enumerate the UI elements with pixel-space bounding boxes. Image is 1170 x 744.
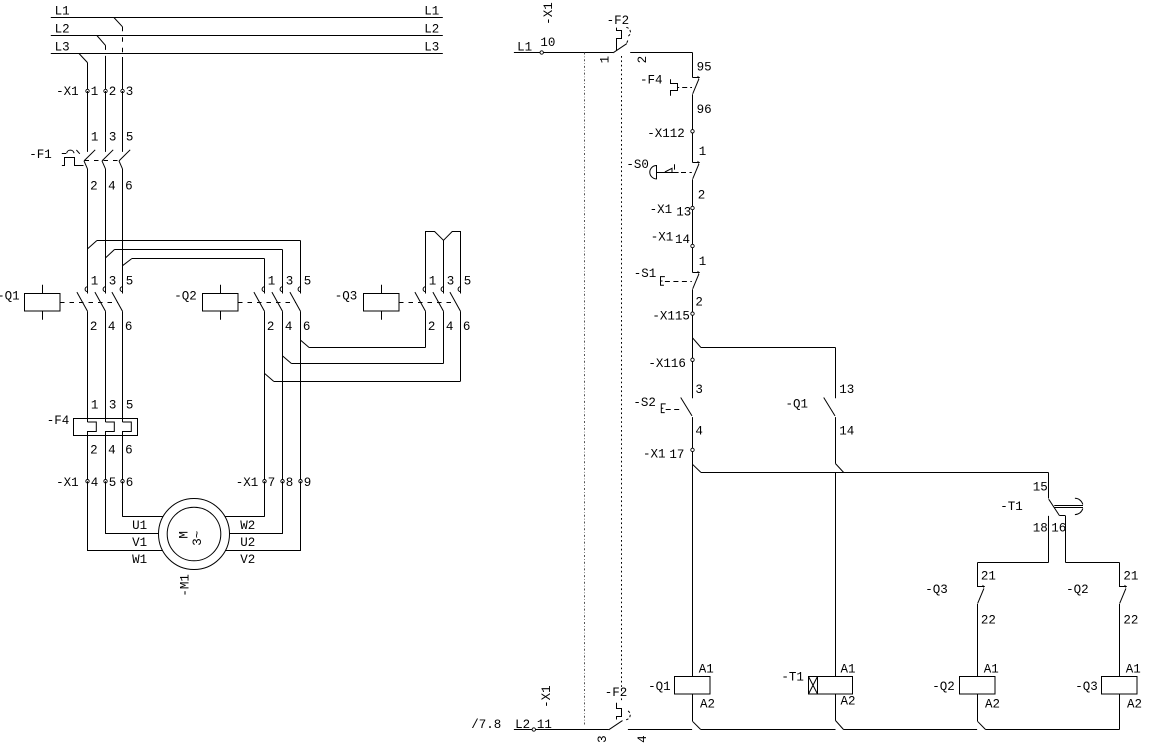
svg-text:-S1: -S1 — [634, 267, 657, 281]
wire -S2 to junction with terminal -X1 17 — [643, 417, 703, 472]
svg-text:4: 4 — [446, 320, 454, 334]
svg-text:6: 6 — [125, 320, 133, 334]
svg-text:4: 4 — [91, 476, 99, 490]
svg-text:-X1: -X1 — [236, 476, 259, 490]
svg-text:17: 17 — [669, 448, 684, 462]
svg-text:-X1: -X1 — [647, 127, 670, 141]
mechanical linkage dashed line of -F2 — [584, 53, 586, 725]
wires -F4 to -X1 terminals 4 5 6 — [88, 436, 123, 482]
svg-text:5: 5 — [126, 130, 134, 144]
supply rail to -Q2 pole 5 — [88, 241, 301, 294]
wire -Q2 aux to coil -Q3 — [1119, 604, 1121, 677]
auxiliary contact -Q2 21 22 — [1066, 570, 1138, 628]
svg-text:95: 95 — [697, 61, 712, 75]
svg-text:-S0: -S0 — [626, 158, 649, 172]
wire -Q3 aux to coil -Q2 — [977, 604, 979, 677]
svg-text:1: 1 — [91, 399, 99, 413]
wire junction down to coil -T1 — [835, 473, 837, 677]
svg-text:3~: 3~ — [191, 531, 205, 546]
svg-text:L2: L2 — [424, 22, 439, 36]
svg-text:1: 1 — [699, 145, 707, 159]
svg-text:4: 4 — [108, 180, 116, 194]
svg-text:-Q2: -Q2 — [932, 680, 955, 694]
svg-text:16: 16 — [1051, 522, 1066, 536]
svg-text:V1: V1 — [132, 536, 147, 550]
svg-text:L1: L1 — [55, 4, 70, 18]
svg-text:6: 6 — [125, 180, 133, 194]
svg-text:A1: A1 — [984, 663, 999, 677]
svg-text:1: 1 — [91, 275, 99, 289]
stop button -S1 — [634, 267, 700, 289]
svg-text:-Q1: -Q1 — [0, 289, 20, 303]
wire junction down to coil -Q1 — [692, 473, 694, 677]
svg-text:L1: L1 — [424, 4, 439, 18]
svg-text:3: 3 — [286, 275, 294, 289]
svg-text:1: 1 — [598, 56, 612, 64]
svg-text:-X1: -X1 — [540, 685, 554, 708]
svg-text:M: M — [178, 531, 192, 539]
timer contact -T1 15 16 18 — [1000, 473, 1083, 563]
svg-text:2: 2 — [695, 296, 703, 310]
svg-text:22: 22 — [1123, 614, 1138, 628]
contactor coil -Q1 — [648, 663, 715, 730]
svg-text:-F1: -F1 — [29, 148, 52, 162]
motor wires U1 V1 W1 — [88, 481, 163, 567]
svg-text:-Q3: -Q3 — [1075, 680, 1098, 694]
wires -Q1 to -F4 — [88, 311, 134, 422]
branch wire -Q2 pin 4 to -Q3 pin 4 — [283, 311, 444, 363]
svg-text:A2: A2 — [841, 695, 856, 709]
svg-text:5: 5 — [126, 399, 134, 413]
svg-text:-X1: -X1 — [56, 476, 79, 490]
svg-text:6: 6 — [125, 443, 133, 457]
svg-text:2: 2 — [267, 320, 275, 334]
motor -M1 — [159, 499, 230, 597]
svg-text:96: 96 — [697, 103, 712, 117]
svg-text:W2: W2 — [240, 519, 255, 533]
svg-text:2: 2 — [428, 320, 436, 334]
svg-text:12: 12 — [670, 127, 685, 141]
svg-text:10: 10 — [540, 36, 555, 50]
star point bridge above -Q3 — [426, 232, 461, 294]
svg-text:4: 4 — [108, 320, 116, 334]
svg-text:-Q3: -Q3 — [925, 583, 948, 597]
wire tap from L1 — [114, 18, 123, 92]
svg-text:2: 2 — [90, 180, 98, 194]
svg-text:-F4: -F4 — [640, 73, 663, 87]
contactor -Q1 — [0, 275, 133, 335]
svg-text:3: 3 — [596, 735, 610, 743]
wire -X1 to -F1 — [88, 91, 123, 152]
bottom rail L2 with terminal -X1 11 and reference /7.8 — [471, 685, 608, 732]
svg-text:L2: L2 — [55, 22, 70, 36]
svg-text:A1: A1 — [841, 663, 856, 677]
svg-text:2: 2 — [109, 85, 117, 99]
control supply wire L1 with terminal -X1 10 — [514, 2, 613, 54]
svg-text:-X116: -X116 — [648, 357, 686, 371]
svg-text:A1: A1 — [1126, 663, 1141, 677]
wire -S1 to -S2 with terminals -X1 15 16 and branch — [648, 289, 703, 398]
svg-text:2: 2 — [90, 320, 98, 334]
contactor -Q2 — [174, 275, 311, 335]
wire tap from L3 — [79, 54, 88, 92]
svg-text:W1: W1 — [132, 553, 147, 567]
svg-text:A2: A2 — [985, 698, 1000, 712]
timer coil -T1 — [781, 663, 855, 730]
contactor coil -Q3 — [1075, 663, 1142, 730]
branch wire -Q2 pin 6 to -Q3 pin 2 — [301, 311, 426, 347]
svg-text:-F2: -F2 — [605, 686, 628, 700]
branch wire to -Q1 aux contact — [693, 338, 836, 399]
svg-text:13: 13 — [676, 205, 691, 219]
auxiliary contact -Q1 13 14 — [786, 383, 855, 473]
svg-text:2: 2 — [90, 443, 98, 457]
wires -F1 to -Q1 — [88, 169, 123, 294]
wire -T1 18 to -Q3 aux contact — [978, 563, 1049, 588]
wires -Q2 to -X1 terminals 7 8 9 — [265, 311, 301, 481]
svg-text:3: 3 — [109, 130, 117, 144]
wire tap from L2 — [97, 36, 106, 92]
svg-text:A2: A2 — [700, 698, 715, 712]
svg-text:2: 2 — [698, 188, 706, 202]
svg-text:-Q2: -Q2 — [174, 289, 197, 303]
bus line L1 — [51, 4, 443, 18]
contactor -Q3 — [335, 275, 472, 335]
svg-text:1: 1 — [429, 275, 437, 289]
svg-text:/7.8: /7.8 — [471, 718, 501, 732]
terminal strip -X1 terminals 7 8 9 — [236, 476, 312, 490]
svg-text:-X115: -X115 — [652, 309, 690, 323]
svg-text:4: 4 — [636, 735, 650, 743]
svg-text:5: 5 — [109, 476, 117, 490]
svg-text:-X1: -X1 — [643, 447, 666, 461]
svg-text:21: 21 — [1123, 570, 1138, 584]
svg-text:8: 8 — [286, 476, 294, 490]
svg-text:L3: L3 — [424, 41, 439, 55]
supply rail to -Q2 pole 1 — [123, 259, 265, 294]
svg-text:22: 22 — [981, 614, 996, 628]
terminal strip -X1 terminals 4 5 6 — [56, 476, 133, 490]
svg-text:-X1: -X1 — [542, 2, 556, 25]
svg-text:3: 3 — [109, 275, 117, 289]
wire -S0 to -S1 with terminals -X1 13 14 — [650, 179, 707, 272]
bus line L3 — [51, 41, 443, 55]
svg-text:2: 2 — [636, 56, 650, 64]
svg-text:4: 4 — [108, 443, 116, 457]
svg-text:-T1: -T1 — [781, 671, 804, 685]
svg-text:-Q1: -Q1 — [786, 398, 809, 412]
svg-text:-X1: -X1 — [650, 203, 673, 217]
circuit breaker -F1 — [29, 130, 133, 193]
svg-text:3: 3 — [109, 399, 117, 413]
svg-text:6: 6 — [463, 320, 471, 334]
svg-text:U2: U2 — [240, 536, 255, 550]
svg-text:9: 9 — [304, 476, 312, 490]
svg-text:-Q3: -Q3 — [335, 289, 358, 303]
svg-text:-F4: -F4 — [47, 414, 70, 428]
supply rail to -Q2 pole 3 — [106, 250, 283, 294]
svg-text:V2: V2 — [240, 553, 255, 567]
svg-text:21: 21 — [981, 570, 996, 584]
svg-text:-M1: -M1 — [178, 574, 192, 597]
svg-text:-S2: -S2 — [633, 396, 656, 410]
bus line L2 — [51, 22, 443, 36]
svg-text:1: 1 — [268, 275, 276, 289]
svg-text:3: 3 — [695, 383, 703, 397]
svg-text:-T1: -T1 — [1000, 500, 1023, 514]
junction wire to coils rail — [693, 464, 1049, 472]
svg-text:3: 3 — [126, 85, 134, 99]
circuit breaker -F2 top pole pins 1 2 — [598, 14, 692, 64]
svg-text:18: 18 — [1033, 522, 1048, 536]
svg-text:6: 6 — [303, 320, 311, 334]
svg-text:-X1: -X1 — [56, 85, 79, 99]
overload relay -F4 — [47, 414, 138, 457]
svg-text:7: 7 — [268, 476, 276, 490]
svg-text:4: 4 — [695, 425, 703, 439]
svg-text:-X1: -X1 — [651, 231, 674, 245]
svg-text:5: 5 — [464, 275, 472, 289]
branch wire -Q2 pin 2 to -Q3 pin 6 — [265, 311, 461, 381]
svg-text:5: 5 — [126, 275, 134, 289]
wire -F4 96 to -S0 with terminal -X1 12 — [647, 94, 706, 162]
overload contact -F4 95 96 — [640, 61, 712, 118]
svg-text:-Q1: -Q1 — [648, 680, 671, 694]
svg-text:14: 14 — [839, 425, 854, 439]
svg-text:L3: L3 — [55, 41, 70, 55]
wire -T1 16 to -Q2 aux contact — [1066, 563, 1120, 588]
svg-text:-Q2: -Q2 — [1066, 583, 1089, 597]
circuit breaker -F2 bottom pole pins 3 4 — [596, 686, 650, 743]
svg-text:6: 6 — [126, 476, 134, 490]
svg-text:3: 3 — [447, 275, 455, 289]
svg-text:4: 4 — [285, 320, 293, 334]
svg-text:-F2: -F2 — [607, 14, 630, 28]
svg-text:U1: U1 — [132, 519, 147, 533]
svg-text:14: 14 — [675, 233, 690, 247]
svg-text:A2: A2 — [1127, 698, 1142, 712]
svg-text:13: 13 — [839, 383, 854, 397]
start button -S2 — [633, 396, 692, 416]
contactor coil -Q2 — [932, 663, 1000, 730]
svg-text:15: 15 — [1033, 481, 1048, 495]
wire top rail to -F4 95 — [692, 53, 694, 78]
bottom rail to coils — [628, 729, 1120, 731]
motor wires W2 U2 V2 — [225, 481, 300, 567]
stop button -S0 — [626, 158, 700, 179]
trip linkage dotted line of -F2 — [621, 56, 623, 702]
svg-text:1: 1 — [699, 255, 707, 269]
svg-text:1: 1 — [91, 85, 99, 99]
svg-text:A1: A1 — [699, 663, 714, 677]
svg-text:5: 5 — [304, 275, 312, 289]
terminal strip -X1 terminals 1 2 3 — [56, 85, 133, 99]
svg-text:1: 1 — [91, 130, 99, 144]
auxiliary contact -Q3 21 22 — [925, 570, 996, 628]
